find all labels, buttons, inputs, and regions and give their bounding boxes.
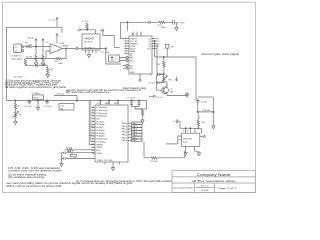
- wire feedback up to inverting input: [46, 51, 50, 59]
- svg-text:R?: R?: [50, 70, 54, 72]
- counter U4 box: [129, 36, 152, 74]
- svg-text:R?4: R?4: [156, 64, 161, 66]
- pin circle AREF ext: [153, 95, 155, 97]
- svg-text:V S D: V S D: [183, 131, 189, 133]
- svg-text:PLL/5?5: PLL/5?5: [84, 41, 93, 43]
- trimpot R15: [163, 76, 165, 82]
- converter rail: [180, 127, 201, 129]
- label gain drive: [201, 53, 240, 56]
- capacitor C6 electrolytic: [196, 101, 199, 102]
- svg-text:RA-3: RA-3: [133, 131, 137, 134]
- wire filter left: [25, 58, 46, 60]
- U1 pin numbers left: [92, 106, 94, 154]
- svg-text:PB3-q: PB3-q: [122, 132, 127, 134]
- capacitor C9: [46, 100, 48, 103]
- pin circle on top net: [148, 21, 150, 23]
- svg-text:XTAL2 CK0 GND: XTAL2 CK0 GND: [97, 159, 113, 162]
- svg-text:ext. CH2: ext. CH2: [14, 76, 23, 79]
- resistor R16: [199, 117, 201, 120]
- svg-text:C? 1.0: C? 1.0: [82, 21, 89, 23]
- ground crystal: [60, 162, 64, 167]
- svg-text:A1: A1: [130, 59, 132, 62]
- wire top link: [198, 96, 214, 98]
- wire Q1 collector: [164, 82, 167, 87]
- svg-text:AREF: AREF: [105, 102, 111, 105]
- svg-text:CONN? 1,2: CONN? 1,2: [11, 56, 23, 58]
- svg-text:A3: A3: [130, 67, 132, 70]
- svg-text:OUT: OUT: [147, 48, 152, 50]
- U4 right pin stubs: [152, 39, 157, 49]
- svg-text:GND & u can be connected to th: GND & u can be connected to the primary …: [6, 185, 62, 188]
- svg-text:PB0-q: PB0-q: [122, 123, 127, 125]
- svg-text:dc-dc: dc-dc: [183, 141, 188, 143]
- svg-text:R?6: R?6: [201, 122, 206, 124]
- svg-text:74HC40?: 74HC40?: [84, 37, 95, 40]
- ground below U5 second: [197, 151, 201, 156]
- label C 0.1u: [157, 97, 164, 99]
- label above U3: [82, 21, 89, 23]
- svg-text:+5V: +5V: [60, 106, 64, 108]
- svg-text:+: +: [51, 46, 53, 49]
- ground below U1: [111, 166, 115, 171]
- wires jumper to U4 pins: [120, 58, 126, 69]
- svg-text:input signal: input signal: [11, 57, 23, 60]
- svg-text:C? 10u: C? 10u: [201, 101, 207, 103]
- wire rail right down: [200, 128, 202, 133]
- wire node to ground branch: [198, 97, 214, 124]
- U4 pin numbers left: [125, 37, 126, 54]
- svg-text:+?V: +?V: [45, 42, 49, 44]
- label CONN1: [11, 56, 23, 61]
- ground regulator: [37, 100, 39, 106]
- label x5 gain: [26, 56, 33, 58]
- pin circle left of U3: [79, 29, 81, 31]
- wire U4 pin12 down: [157, 44, 164, 75]
- svg-text:A0: A0: [130, 56, 132, 59]
- capacitor C4: [156, 73, 164, 76]
- svg-text:PD6(q2b): PD6(q2b): [96, 136, 104, 138]
- pin circle right of U3: [102, 29, 104, 31]
- U4 bottom pin: [139, 74, 141, 79]
- U1 pin labels left: [96, 107, 107, 155]
- svg-text:1k: 1k: [18, 105, 20, 107]
- U1 bottom pins: [105, 162, 120, 166]
- op-amp power: [56, 38, 58, 44]
- svg-text:+5V reg: +5V reg: [56, 93, 65, 96]
- label U2: [60, 42, 69, 48]
- pin circle U4-b: [126, 60, 128, 62]
- svg-text:27: 27: [92, 118, 94, 120]
- border frame: [3, 2, 256, 192]
- svg-text:C? 0.1uF: C? 0.1uF: [24, 106, 33, 108]
- wire from output to jumper block: [106, 49, 121, 64]
- svg-text:C? 10n: C? 10n: [39, 64, 47, 66]
- jumper block J1: [109, 55, 120, 62]
- svg-text:PC3(analog): PC3(analog): [96, 107, 107, 109]
- power arrow P2: [42, 43, 44, 47]
- svg-text:+: +: [172, 120, 174, 123]
- svg-text:C?: C?: [58, 153, 60, 155]
- capacitor C3: [173, 20, 175, 25]
- svg-text:3: 3: [92, 127, 93, 129]
- svg-text:Page 1 of 1: Page 1 of 1: [218, 188, 238, 190]
- wire op-amp output: [62, 48, 106, 50]
- ground AVCC filter: [141, 118, 145, 123]
- wire caps to ground: [62, 153, 64, 162]
- wire to ground: [142, 115, 144, 118]
- svg-text:XTAL1: XTAL1: [96, 146, 102, 149]
- wire +9V rail left: [6, 27, 8, 100]
- ground below R6: [46, 73, 50, 78]
- svg-text:PB1-q: PB1-q: [122, 126, 127, 128]
- ground below U5: [184, 151, 188, 156]
- label U4: [132, 34, 136, 36]
- svg-text:C? 10n: C? 10n: [177, 23, 185, 25]
- wire from PB6 flag down right: [143, 142, 145, 158]
- svg-text:PD3(q2): PD3(q2): [96, 127, 103, 129]
- svg-text:78L05: 78L05: [33, 97, 39, 99]
- resistor R18 left: [15, 101, 17, 103]
- ground below R2: [34, 61, 38, 66]
- svg-text:26: 26: [92, 115, 94, 117]
- resistor R14: [163, 61, 165, 67]
- capacitor C7 input: [172, 120, 174, 123]
- svg-text:2N?: 2N?: [170, 91, 175, 93]
- capacitor C10: [131, 101, 133, 103]
- svg-text:+: +: [194, 98, 196, 101]
- svg-text:U?A: U?A: [60, 42, 65, 45]
- label R above: [203, 109, 211, 112]
- wire cap to ground: [174, 22, 176, 26]
- ground below C3: [175, 26, 179, 31]
- svg-text:C5, C8, C11, C15 are tantalum: C5, C8, C11, C15 are tantalum: [8, 167, 60, 170]
- resistor R6: [47, 66, 49, 67]
- svg-text:U? 78L05: U? 78L05: [32, 93, 40, 95]
- svg-text:C?: C?: [58, 159, 60, 161]
- wire JP1 down: [166, 48, 168, 57]
- wire +9V rail top: [7, 26, 63, 28]
- crystal circuit: wire XTAL1: [66, 152, 95, 154]
- U4 left pin stubs: [125, 39, 130, 54]
- svg-text:PD0(analog): PD0(analog): [96, 116, 107, 118]
- svg-text:PC/analog: PC/analog: [96, 141, 105, 143]
- resistor R21 reset pullup: [67, 149, 74, 151]
- op-amp U2: [50, 44, 62, 54]
- regulator U6 box: [33, 95, 44, 100]
- label X? CH1: [101, 52, 110, 54]
- svg-text:PB6-q: PB6-q: [122, 140, 127, 142]
- svg-text:RA-2: RA-2: [133, 128, 137, 131]
- wire U3 top: [81, 30, 96, 34]
- svg-text:2: 2: [92, 124, 93, 126]
- svg-text:R?A 10k: R?A 10k: [203, 109, 211, 112]
- capacitor C13: [64, 157, 65, 160]
- wire U5 left out: [166, 140, 178, 144]
- power +5(+9) label: [27, 38, 34, 40]
- wire node A down: [35, 47, 37, 56]
- svg-text:RF axis (as end of frequency.: RF axis (as end of frequency.: [66, 91, 111, 94]
- svg-text:x5(+9): x5(+9): [26, 56, 33, 58]
- svg-text:180k: 180k: [161, 27, 165, 29]
- svg-text:1-1-2008: 1-1-2008: [200, 190, 209, 192]
- resistor R7 above U3: [86, 21, 88, 24]
- svg-text:1: 1: [15, 46, 17, 49]
- wire R14 to trimpot: [163, 67, 165, 76]
- wire rail right end down: [146, 101, 148, 109]
- pin 1 circle: [22, 46, 24, 48]
- loop filter top wire: [163, 57, 165, 61]
- capacitor C2: [36, 64, 38, 67]
- svg-text:RA-1: RA-1: [133, 125, 137, 128]
- U1 right pin stubs and net flags: [128, 122, 142, 142]
- svg-text:C? .1u: C? .1u: [49, 20, 56, 22]
- svg-text:LM?58: LM?58: [62, 45, 69, 47]
- microcontroller U1 box: [95, 105, 128, 162]
- svg-text:10k: 10k: [18, 114, 21, 116]
- testpoint circle: [76, 48, 78, 50]
- converter U5 box: [182, 133, 200, 146]
- svg-text:I: I: [136, 34, 137, 36]
- U1 left pin stubs: [92, 107, 96, 153]
- U1 left wires to bus: [89, 101, 95, 145]
- svg-text:RA-0: RA-0: [133, 122, 137, 125]
- wire input: [24, 46, 26, 48]
- svg-text:A2: A2: [130, 64, 132, 67]
- svg-text:C? 0.1uF: C? 0.1uF: [44, 106, 53, 108]
- svg-text:-: -: [51, 50, 52, 54]
- wire down to U4 pin1: [120, 22, 124, 38]
- connector CONN1: [14, 44, 22, 53]
- capacitor C11: [138, 101, 140, 103]
- junction rail: [29, 100, 30, 101]
- svg-text:28: 28: [92, 121, 94, 123]
- U5 left pins: [178, 136, 182, 140]
- converter U5 top pins: [186, 128, 195, 133]
- svg-text:Connect gain drive signal: Connect gain drive signal: [201, 53, 240, 56]
- transistor Q1: [162, 87, 169, 94]
- wire gain drive from U4: [155, 41, 196, 99]
- svg-text:1: 1: [92, 147, 93, 149]
- wire caps common: [132, 104, 147, 109]
- U4 top pins: [133, 32, 141, 37]
- crystal Y1: [71, 154, 77, 157]
- svg-text:+5(+9): +5(+9): [27, 38, 34, 40]
- svg-text:PD0: PD0: [96, 119, 100, 121]
- resistor R20: [141, 109, 143, 115]
- jumper JP1: [166, 44, 169, 48]
- wire top net: [120, 21, 172, 23]
- label C1: [49, 20, 56, 22]
- ground below U3: [87, 53, 91, 58]
- wire stub down from top rail: [61, 27, 63, 33]
- wire U3 right: [103, 31, 120, 47]
- svg-text:100k: 100k: [58, 63, 64, 65]
- svg-text:PD5(q1b): PD5(q1b): [96, 133, 104, 135]
- note text block 2: [6, 167, 172, 188]
- +5V net label wire: [54, 95, 77, 100]
- svg-text:R? 10k: R? 10k: [66, 148, 72, 150]
- title block: [172, 171, 255, 193]
- wire Q1 emitter to ground: [167, 92, 187, 95]
- svg-text:PD1(t1q): PD1(t1q): [96, 120, 104, 123]
- svg-text:C? C? 0.1: C? C? 0.1: [126, 97, 135, 99]
- capacitor C8: [28, 100, 30, 103]
- svg-text:uP-PLL resonance driver: uP-PLL resonance driver: [192, 179, 236, 183]
- label select frequency range: [123, 87, 147, 90]
- junction output: [65, 48, 66, 49]
- svg-text:PB5-q: PB5-q: [122, 137, 127, 139]
- U3 bottom pins: [86, 50, 97, 53]
- svg-text:11: 11: [92, 138, 94, 140]
- svg-text:dig: dig: [60, 108, 63, 110]
- svg-text:C? 0.1u: C? 0.1u: [157, 97, 164, 99]
- resistor R8: [159, 21, 166, 23]
- svg-text:PC4(analog): PC4(analog): [96, 110, 107, 112]
- svg-text:RA-6: RA-6: [133, 139, 137, 142]
- pin circle U4-c: [126, 65, 128, 67]
- U4 pin labels right inside: [147, 38, 152, 50]
- node A junction: [35, 46, 36, 47]
- U5 right pin circle: [200, 136, 203, 138]
- svg-text:Rev: 1.0: Rev: 1.0: [201, 185, 209, 187]
- svg-text:AVCC: AVCC: [114, 102, 120, 105]
- wire to op-amp: [32, 46, 50, 48]
- pin circle U4-d: [126, 67, 128, 69]
- capacitor C1 on rail: [56, 22, 58, 28]
- title text: [173, 172, 238, 192]
- trimpot R19: [15, 109, 17, 112]
- svg-text:all ground in 78L05/7805CT reg: all ground in 78L05/7805CT regulator inp…: [5, 84, 58, 87]
- pin circle U4-a: [126, 57, 128, 59]
- svg-text:R? 0.33: R? 0.33: [150, 161, 158, 163]
- note text block 1: [5, 79, 142, 94]
- wire cap join: [155, 75, 157, 91]
- svg-text:RA-4: RA-4: [133, 134, 137, 137]
- wire feedback bottom: [46, 58, 66, 60]
- U4 pin labels left: [130, 38, 138, 74]
- capacitor C5: [156, 81, 164, 84]
- resistor R17: [151, 157, 158, 159]
- svg-text:11: 11: [157, 46, 159, 48]
- wire down to R3: [42, 47, 44, 56]
- resistor R4 feedback: [56, 58, 63, 60]
- svg-text:C? 4u7: C? 4u7: [148, 83, 155, 85]
- svg-text:Document Number:: Document Number:: [173, 187, 194, 190]
- svg-text:C?: C?: [150, 75, 153, 77]
- wire feedback bottom: [144, 151, 185, 158]
- resistor R3: [42, 55, 44, 61]
- ground right column: [212, 124, 216, 129]
- U1 bottom labels: [97, 159, 113, 162]
- U1 top pin stubs: [100, 101, 118, 105]
- wire +9V rail bottom: [7, 100, 147, 102]
- power arrow down: [175, 77, 177, 81]
- pin 2 circle: [22, 50, 24, 52]
- capacitor C12: [64, 152, 65, 155]
- svg-text:R?5: R?5: [168, 79, 173, 81]
- svg-text:Z: Z: [140, 34, 141, 36]
- svg-text:Select frequency range: Select frequency range: [123, 87, 147, 90]
- svg-text:RA-5: RA-5: [133, 136, 137, 139]
- right column: wire down: [196, 99, 198, 101]
- op-amp U3 PLL IC box: [82, 34, 100, 50]
- power arrow P1: [35, 43, 37, 47]
- svg-text:all pads together and connecte: all pads together and connected to gnd p…: [5, 86, 67, 89]
- label ext CH2: [14, 76, 23, 79]
- wire C6 to node: [197, 102, 199, 112]
- U5 bottom pins: [186, 146, 199, 151]
- svg-text:4: 4: [92, 129, 93, 131]
- ground below R3: [41, 61, 45, 66]
- svg-text:+: +: [199, 117, 201, 120]
- svg-text:IN GND O: IN GND O: [85, 48, 96, 50]
- svg-text:PD2(q1q): PD2(q1q): [96, 124, 104, 126]
- wire XTAL2: [66, 157, 95, 159]
- ground below trimpot: [15, 118, 17, 120]
- svg-text:PC6(analog): PC6(analog): [96, 139, 107, 141]
- svg-text:J?: J?: [115, 58, 118, 60]
- svg-text:Company Name: Company Name: [197, 172, 231, 177]
- ground at emitter: [185, 92, 189, 97]
- svg-text:PD4(q0b): PD4(q0b): [96, 130, 104, 132]
- svg-text:5: 5: [92, 132, 93, 134]
- wire filter bottom: [25, 64, 47, 67]
- U1 pin labels right: [122, 123, 127, 142]
- wire R16 to converter rail: [197, 126, 199, 129]
- svg-text:PPU: PPU: [96, 150, 101, 152]
- svg-text:use care grounding plane on pc: use care grounding plane on pcb as shiel…: [6, 182, 133, 185]
- svg-text:23: 23: [92, 106, 94, 108]
- svg-text:JP1: JP1: [170, 46, 175, 48]
- svg-text:24: 24: [92, 109, 94, 111]
- resistor R2: [35, 55, 37, 61]
- AVCC filter caps: [126, 97, 135, 99]
- svg-text:PB4-q: PB4-q: [122, 135, 127, 137]
- svg-text:25: 25: [92, 112, 94, 114]
- svg-text:MC34?6?: MC34?6?: [183, 138, 193, 140]
- svg-text:/RESET: /RESET: [96, 144, 104, 146]
- resistor R5 vertical: [24, 58, 26, 60]
- net label box: [59, 104, 74, 111]
- wire down to U4 pin2: [127, 22, 129, 31]
- svg-text:PC5(analog): PC5(analog): [96, 113, 107, 115]
- labels C8 C9: [24, 106, 52, 108]
- svg-text:XTAL1: XTAL1: [96, 152, 102, 155]
- svg-text:GND: GND: [130, 72, 135, 74]
- svg-text:PB2-q: PB2-q: [122, 129, 127, 131]
- wire feedback down: [65, 49, 67, 59]
- svg-text:connect only one for desired m: connect only one for desired mode!: [8, 170, 63, 173]
- resistor R1: [25, 46, 32, 48]
- svg-text:(3) enables auto-tuning: (3) enables auto-tuning: [8, 176, 45, 179]
